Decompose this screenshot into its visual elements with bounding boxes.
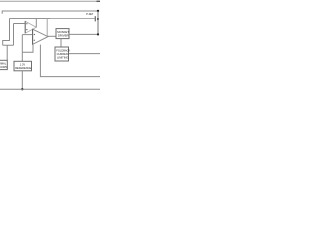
svg-text:DOWN: DOWN [0,65,7,69]
wire error amp - input from below [22,45,33,53]
wire CL amp output up to gate rail [35,19,37,28]
op-amp U1 current limit amp triangle [25,21,36,33]
wire W1 thermal shutdown left path [3,19,10,46]
op-amp U2 error amplifier triangle [33,29,48,44]
block 1.2V REFERENCE box [14,61,32,71]
wire output sense feedback [40,45,100,77]
wire gate rail drop to driver input [46,19,48,37]
wire error amp + input [22,34,32,36]
wire top rail dark right segment [97,0,101,2]
block FOLDBACK CURRENT LIMITING box [55,47,69,61]
block thermal shutdown clipped left box [0,60,7,69]
transistor Q1 P-FET channel line [97,11,99,34]
svg-text:FOLDBACK: FOLDBACK [56,49,70,53]
wire error amp output to driver [48,35,56,37]
wire reference to ground [21,71,23,89]
op-amp U2 input marks [34,34,35,35]
wire VIN top border [2,11,98,14]
svg-text:RMAL: RMAL [0,61,7,65]
wire reference to input vertical [21,35,23,62]
svg-text:DRIVER: DRIVER [58,33,69,37]
transistor Q1 P-FET gate bar [95,16,96,21]
svg-text:CURRENT: CURRENT [57,52,70,56]
wire gate rail [10,18,51,20]
wire gate rail right segment [50,18,95,20]
block MOSFET DRIVER box [56,29,69,39]
transistor Q1 P-FET body tap [97,18,99,20]
wire W2 second left path [3,24,14,61]
svg-text:P-FET: P-FET [86,12,94,16]
wire ground rail [0,88,100,90]
wire driver to foldback vertical [60,39,62,47]
wire foldback output to right edge [69,53,101,55]
node VIN corner junction [97,10,99,12]
wire driver output to P-FET node [69,33,98,35]
op-amp U1 input marks [26,23,27,24]
wire top clipped rail [0,0,100,2]
node ground junction [21,88,23,90]
node driver output junction [97,33,99,35]
svg-text:LIMITING: LIMITING [57,56,68,60]
svg-text:REFERENCE: REFERENCE [15,66,31,70]
svg-text:1.2V: 1.2V [20,62,26,66]
wire W2 horizontal to CL amp input [14,23,26,25]
